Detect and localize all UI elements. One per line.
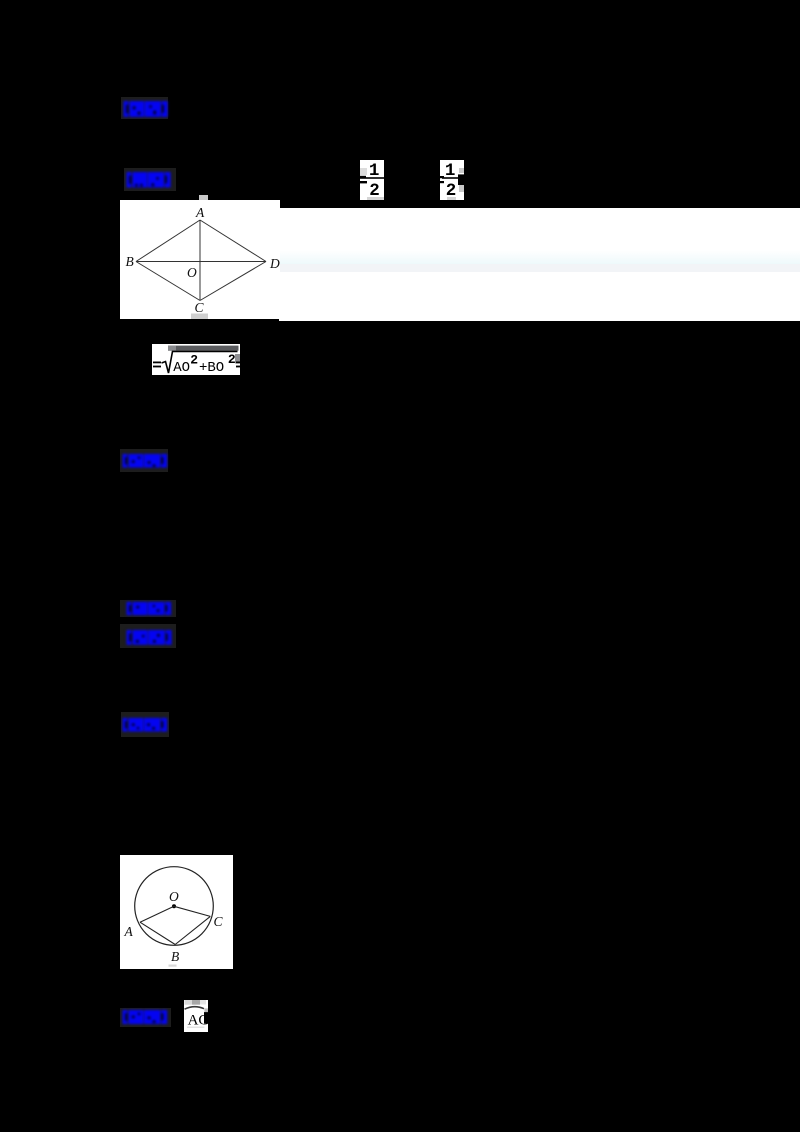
svg-text:B: B (171, 949, 179, 964)
side AB (136, 220, 200, 262)
circle figure box (120, 855, 233, 969)
diagonal AC (199, 220, 201, 301)
black block clipped at right (204, 1012, 208, 1024)
fraction 1/2 (second) (440, 160, 464, 200)
equals sign left (153, 361, 161, 363)
faint strip under AC (187, 1027, 204, 1029)
circle O (135, 867, 214, 946)
label L2 blue bracket tag (124, 168, 176, 191)
center dot (172, 904, 176, 908)
svg-text:A: A (124, 924, 134, 939)
svg-text:D: D (269, 256, 280, 271)
rhombus figure box (120, 200, 280, 319)
gray block behind last superscript (235, 354, 240, 364)
faint gray strip in band (279, 264, 800, 272)
svg-text:C: C (214, 914, 224, 929)
chord AB (140, 922, 175, 944)
svg-text:AO: AO (173, 359, 190, 375)
chord BC (175, 916, 210, 944)
sqrt formula box =sqrt(AO^2+BO^2) (152, 344, 240, 376)
gray smudge above A (199, 195, 208, 200)
svg-text:O: O (187, 265, 197, 280)
radius OA (140, 906, 174, 922)
svg-text:A: A (195, 205, 205, 220)
wide white band right of rhombus figure (279, 208, 800, 321)
side CD (200, 262, 266, 301)
svg-text:C: C (195, 300, 205, 315)
arc-AC boxed symbol (184, 1000, 208, 1032)
svg-text:2: 2 (228, 352, 236, 367)
side AD (200, 220, 266, 262)
label L6 blue bracket tag (121, 712, 169, 737)
svg-text:B: B (126, 254, 134, 269)
radical sign (162, 351, 238, 373)
faint cyan strip in band (279, 250, 800, 264)
label L4 blue bracket tag (120, 600, 176, 617)
dark strip above vinculum (168, 345, 239, 350)
label L1 blue bracket tag (121, 97, 168, 119)
svg-text:+BO: +BO (199, 359, 224, 375)
gray patch right middle (204, 1008, 208, 1012)
svg-text:O: O (169, 889, 179, 904)
fraction 1/2 (first) (360, 160, 384, 200)
diagonal BD (136, 261, 266, 263)
label L3 blue bracket tag (120, 449, 168, 472)
label L5 blue bracket tag (120, 624, 176, 648)
side BC (136, 262, 200, 301)
radius OC (174, 906, 210, 916)
arc hat over AC (185, 1007, 205, 1010)
gray smudge below B (169, 965, 177, 967)
svg-text:2: 2 (190, 352, 198, 367)
top gray blocks (185, 1000, 193, 1005)
equals sign right clipped (236, 361, 240, 363)
gray smudge below C (191, 314, 208, 320)
svg-text:2: 2 (369, 181, 380, 201)
svg-text:2: 2 (446, 181, 457, 201)
label L7 blue bracket tag (120, 1008, 171, 1028)
